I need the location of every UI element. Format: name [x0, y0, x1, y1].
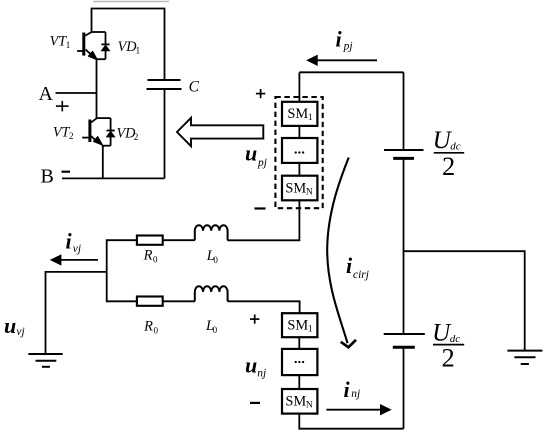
wire: junction to output node — [46, 272, 107, 354]
wire: junction to lower R0 — [107, 300, 137, 302]
current arrow i_vj — [51, 255, 98, 265]
svg-text:pj: pj — [257, 157, 267, 169]
wire: VT1 emitter down through node A to VT2 collector — [96, 59, 98, 118]
minus sign of u_pj — [255, 207, 266, 209]
block arrow pointing left — [177, 118, 263, 146]
arrowhead of i_cirj — [341, 340, 356, 347]
svg-text:i: i — [344, 377, 351, 402]
diode VD1 — [101, 32, 109, 59]
plus sign at A — [56, 101, 69, 112]
wire between SM1 and dots box — [298, 126, 300, 138]
wire: top rail of arm (SM stack to DC bus) — [299, 71, 403, 73]
svg-text:R: R — [143, 248, 153, 264]
label Udc/2 upper — [433, 127, 461, 181]
resistor R0 (upper arm) — [137, 236, 163, 245]
svg-text:SM: SM — [287, 317, 308, 333]
DC bus right vertical (upper segment) — [403, 72, 405, 150]
capacitor C — [147, 80, 182, 178]
svg-text:SM: SM — [285, 180, 306, 196]
svg-text:C: C — [189, 79, 200, 96]
svg-text:cirj: cirj — [353, 269, 369, 281]
wire: junction to upper R0 — [107, 239, 137, 241]
svg-text:N: N — [306, 187, 313, 197]
svg-text:u: u — [245, 140, 257, 165]
svg-text:pj: pj — [343, 40, 353, 52]
svg-text:A: A — [39, 83, 54, 105]
inductor L0 (upper arm) — [195, 225, 228, 240]
svg-text:1: 1 — [308, 324, 313, 334]
svg-text:i: i — [336, 26, 343, 51]
dashed box around upper SM stack — [275, 97, 322, 208]
svg-text:2: 2 — [134, 132, 139, 142]
svg-text:i: i — [66, 228, 73, 253]
wire between dots box and SMN (lower) — [298, 375, 300, 389]
wire: DC midpoint to ground — [404, 251, 525, 350]
svg-text:2: 2 — [442, 343, 455, 373]
SM box SMN (lower arm) — [282, 389, 317, 414]
wire: R0 to L0 lower — [163, 300, 195, 302]
diode VD2 — [107, 118, 115, 146]
svg-text:u: u — [245, 352, 257, 377]
node A wire — [56, 92, 97, 94]
svg-text:0: 0 — [154, 325, 159, 335]
svg-text:2: 2 — [69, 131, 74, 141]
svg-text:SM: SM — [287, 106, 308, 122]
wire: top arm into SM1 — [298, 72, 300, 102]
wire between SM1 and dots box (lower) — [298, 337, 300, 349]
junction vertical between arms — [106, 239, 108, 302]
plus sign of u_nj — [250, 315, 259, 324]
dots box (lower arm) — [282, 349, 317, 375]
svg-text:vj: vj — [16, 326, 24, 338]
circulating current curve i_cirj — [327, 158, 349, 344]
svg-text:B: B — [41, 166, 54, 188]
minus sign of u_nj — [250, 402, 260, 404]
plus sign of u_pj — [256, 89, 265, 98]
dots box (upper arm) — [282, 138, 317, 163]
current arrow i_pj — [307, 55, 377, 65]
wire: VT2 emitter down to node B rail — [102, 146, 104, 179]
SM box SM1 (upper arm) — [282, 102, 317, 126]
svg-text:u: u — [4, 313, 16, 338]
battery source lower Udc/2 — [384, 334, 425, 347]
svg-text:nj: nj — [351, 388, 360, 400]
current arrow i_nj — [326, 405, 390, 415]
svg-text:vj: vj — [73, 243, 81, 255]
svg-text:R: R — [143, 318, 153, 334]
transistor VT1 — [77, 32, 105, 60]
SM box SMN (upper arm) — [282, 176, 317, 201]
transistor VT2 — [82, 118, 110, 146]
svg-text:SM: SM — [285, 394, 306, 410]
label Udc/2 lower — [432, 320, 460, 373]
svg-text:i: i — [346, 253, 353, 278]
wire: top rail of submodule (VT1 collector to capacitor top) — [92, 9, 165, 81]
svg-text:0: 0 — [213, 255, 218, 265]
ground (right) — [507, 351, 542, 364]
faint cropped line at top — [93, 1, 169, 3]
ground (left) — [28, 354, 62, 367]
svg-text:1: 1 — [308, 113, 313, 123]
svg-text:2: 2 — [442, 151, 455, 181]
svg-text:0: 0 — [213, 325, 218, 335]
wire between dots box and SMN — [298, 163, 300, 176]
svg-text:1: 1 — [136, 45, 141, 55]
minus sign at B — [62, 171, 71, 173]
DC bus right vertical (middle segment) — [403, 158, 405, 334]
svg-text:nj: nj — [257, 368, 266, 380]
DC bus right vertical (lower segment) — [403, 347, 405, 429]
svg-text:1: 1 — [66, 40, 71, 50]
wire: SMN bottom to DC bus — [299, 414, 403, 429]
svg-text:VT: VT — [53, 124, 71, 140]
wire: SMN down and left to upper arm inductor — [227, 200, 299, 240]
svg-text:0: 0 — [153, 255, 158, 265]
svg-text:VD: VD — [118, 39, 138, 55]
svg-text:N: N — [306, 401, 313, 411]
wire: lower inductor to lower SM stack — [227, 301, 299, 313]
battery source upper Udc/2 — [384, 150, 424, 158]
SM box SM1 (lower arm) — [282, 313, 317, 337]
wire: R0 to L0 upper — [163, 239, 195, 241]
node B wire — [62, 177, 165, 179]
svg-text:VT: VT — [50, 34, 68, 50]
resistor R0 (lower arm) — [137, 297, 163, 306]
inductor L0 (lower arm) — [195, 286, 228, 301]
